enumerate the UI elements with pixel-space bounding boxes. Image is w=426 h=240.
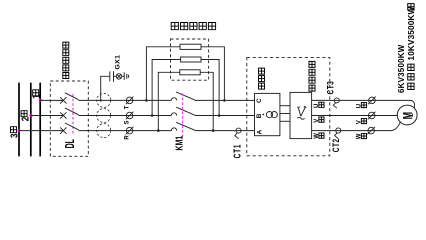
breaker cabinet dashed box	[50, 81, 88, 156]
motor M	[397, 105, 417, 125]
node dot bus B / wire S	[30, 114, 33, 117]
reactor R1 right leg	[201, 47, 224, 101]
svg-text:CT2: CT2	[331, 138, 341, 152]
cable CT dashed circle 3	[97, 124, 111, 138]
bus label 2相	[20, 111, 31, 122]
svg-text:CT1: CT1	[232, 144, 243, 159]
label V (motor side)	[356, 118, 366, 124]
terminal symbol R	[126, 127, 134, 135]
breaker DL pole 1	[60, 93, 79, 104]
label U (cell side)	[314, 102, 324, 108]
label U (motor side)	[356, 102, 366, 108]
reactor R2 left leg	[152, 60, 181, 116]
reactor R1 left leg	[146, 47, 180, 101]
svg-text:R: R	[125, 135, 131, 140]
reactor R2	[181, 57, 201, 62]
current transformer CT3	[333, 98, 339, 108]
breaker DL linkage	[72, 94, 74, 135]
reactor R3	[180, 70, 200, 75]
svg-text:2: 2	[20, 117, 31, 121]
cable CT dashed circle 2	[97, 109, 111, 123]
breaker DL pole 2	[60, 108, 79, 119]
busbar phase B	[30, 83, 32, 157]
note line 1: 电机为10KV3500KW的	[407, 4, 416, 90]
label 高压开关柜	[63, 42, 69, 78]
svg-text:GX1: GX1	[114, 55, 121, 70]
contactor KM pole 2	[171, 107, 195, 115]
terminal symbol U	[368, 97, 376, 105]
wire S (middle phase)	[31, 115, 255, 117]
reactor dashed box	[171, 39, 209, 80]
reactor R1	[180, 44, 201, 49]
cable CT dashed circle 1	[97, 93, 111, 107]
busbar phase C	[39, 83, 41, 157]
label 进线电抗器	[171, 23, 215, 30]
power cell box	[290, 92, 312, 138]
node dots reactor legs	[145, 99, 226, 132]
label 变压器	[259, 68, 265, 89]
terminal symbol V	[368, 112, 376, 120]
note line 2: 6KV3500KW	[397, 44, 406, 93]
winding dot	[262, 114, 264, 116]
contactor KM pole 3	[171, 122, 195, 130]
svg-text:10KV3500KW: 10KV3500KW	[407, 7, 416, 61]
svg-text:C: C	[256, 98, 263, 103]
contactor KM linkage	[182, 93, 184, 137]
node dot bus A / wire R	[18, 129, 21, 132]
node GX1 tap	[100, 99, 102, 101]
grounding switch GX1 branch	[101, 71, 124, 100]
reactor R3 left leg	[158, 72, 180, 130]
svg-text:6KV3500KW: 6KV3500KW	[397, 44, 406, 93]
contactor KM pole 1	[171, 92, 195, 100]
svg-text:B: B	[256, 113, 263, 118]
VFD cabinet dashed box	[247, 58, 330, 156]
transformer U1 box	[255, 93, 280, 135]
label W (cell side)	[314, 133, 324, 139]
svg-text:DL: DL	[64, 139, 78, 148]
terminal symbol S	[126, 112, 134, 120]
transformer winding circles	[266, 112, 277, 118]
link transformer to power unit 1	[280, 105, 290, 107]
output wire W	[312, 122, 401, 130]
label V (cell side)	[314, 117, 324, 123]
wire R (bottom phase)	[19, 130, 255, 132]
svg-text:T: T	[125, 105, 131, 109]
ground symbol	[124, 72, 128, 79]
svg-text:A: A	[257, 130, 264, 135]
node dot bus C / wire T	[39, 99, 42, 102]
breaker DL pole 3	[60, 123, 79, 134]
terminal symbol T	[126, 97, 134, 105]
output wire U	[312, 100, 415, 107]
output wire V	[312, 115, 398, 117]
bus label 1相	[30, 90, 42, 99]
bus label 3相	[9, 127, 20, 138]
reactor R3 right leg	[200, 72, 213, 130]
busbar phase A	[18, 83, 20, 157]
label W (motor side)	[356, 133, 366, 139]
terminal symbol W	[367, 127, 375, 135]
link transformer to power unit 3	[280, 120, 290, 122]
current transformer CT1	[235, 128, 241, 139]
label 功率单元	[309, 61, 315, 91]
svg-text:S: S	[125, 120, 131, 124]
svg-text:~: ~	[410, 113, 417, 117]
inverter symbol	[297, 106, 306, 119]
svg-text:CT3: CT3	[326, 81, 336, 95]
reactor R2 right leg	[201, 60, 219, 116]
svg-text:KM1: KM1	[173, 136, 185, 151]
current transformer CT2	[335, 128, 341, 139]
link transformer to power unit 2	[280, 113, 290, 115]
wire T (top phase)	[40, 99, 254, 101]
svg-text:3: 3	[9, 134, 20, 138]
